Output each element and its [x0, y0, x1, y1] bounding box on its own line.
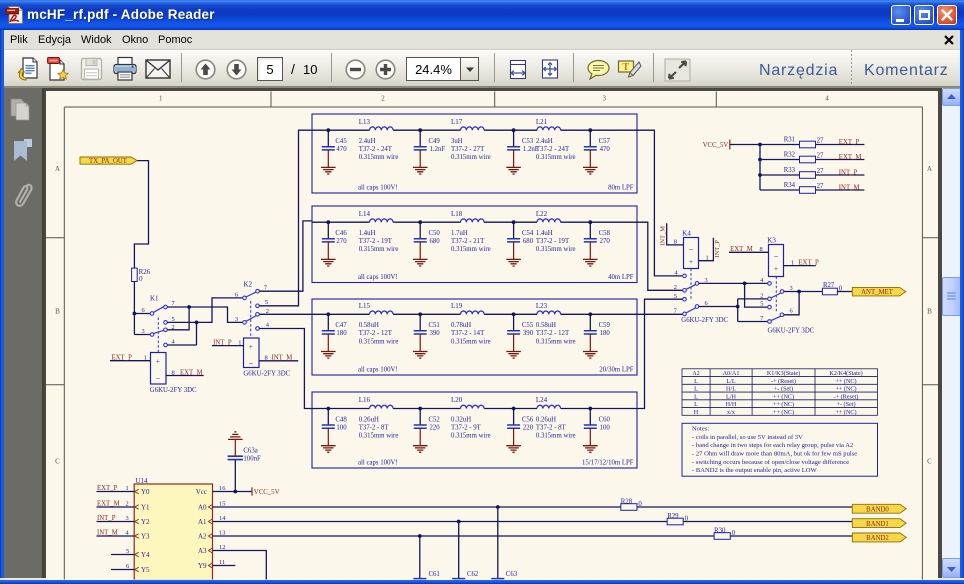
junction C56 node: [512, 407, 516, 411]
svg-text:L: L: [694, 378, 698, 385]
svg-text:T37-2 - 19T: T37-2 - 19T: [359, 238, 393, 245]
svg-text:T37-2 - 12T: T37-2 - 12T: [359, 330, 393, 337]
wire U14 pin 13 (A2) to BAND2: [213, 530, 853, 537]
svg-text:R27: R27: [823, 282, 835, 289]
svg-text:L: L: [694, 401, 698, 408]
svg-text:−: −: [249, 358, 254, 368]
wire U14 pin 12 (A3): [213, 544, 267, 579]
svg-text:INT_M: INT_M: [272, 355, 293, 362]
svg-text:L13: L13: [359, 118, 371, 126]
sheet zone labels: [55, 95, 932, 466]
wire TX_PA_OUT to R26: [134, 161, 148, 269]
wire LPF3 series line: [312, 313, 637, 315]
svg-text:R29: R29: [667, 513, 679, 520]
svg-text:++ (NC): ++ (NC): [773, 393, 794, 400]
dotted separator: [851, 50, 852, 84]
inductor L17: [451, 118, 491, 161]
resistor R33: [784, 167, 824, 178]
resistor R30: [714, 528, 736, 540]
svg-text:BAND1: BAND1: [866, 521, 889, 528]
svg-text:EXT_M: EXT_M: [97, 501, 120, 508]
svg-text:4: 4: [266, 321, 270, 328]
resistor R29: [667, 513, 688, 525]
toolbar icon: email: [145, 59, 171, 79]
svg-text:A2: A2: [692, 370, 700, 377]
svg-text:C60: C60: [599, 416, 611, 423]
junction C45 node: [326, 128, 330, 132]
svg-text:T37-2 - 8T: T37-2 - 8T: [359, 424, 390, 431]
junction C62 tap: [457, 520, 461, 524]
svg-text:0.315mm wire: 0.315mm wire: [451, 433, 491, 440]
separator: [181, 53, 182, 82]
svg-text:B: B: [55, 308, 60, 316]
svg-text:G6KU-2FY 3DC: G6KU-2FY 3DC: [243, 370, 290, 377]
wire U14 pin 16 to VCC_5V: [213, 485, 253, 492]
right scrollbar: [942, 88, 961, 578]
svg-text:100nF: 100nF: [467, 580, 485, 584]
relay state table: [682, 369, 878, 416]
svg-text:- 27 Ohm will draw more than 8: - 27 Ohm will draw more than 80mA, but o…: [692, 451, 857, 458]
svg-text:8: 8: [172, 369, 175, 376]
separator: [331, 53, 332, 82]
relay K4 contacts: [674, 269, 729, 325]
svg-text:0.315mm wire: 0.315mm wire: [359, 433, 399, 440]
svg-text:G6KU-2FY 3DC: G6KU-2FY 3DC: [768, 327, 815, 334]
svg-text:15: 15: [219, 501, 225, 508]
svg-text:1: 1: [238, 339, 241, 346]
junction C57 node: [588, 128, 592, 132]
svg-text:1: 1: [706, 254, 709, 261]
svg-text:EXT_P: EXT_P: [97, 485, 118, 492]
svg-text:ANT_MET: ANT_MET: [861, 289, 894, 296]
junction C59 node: [588, 312, 592, 316]
svg-text:1.2nF: 1.2nF: [430, 146, 446, 153]
capacitor C48: [321, 409, 347, 453]
svg-text:Y5: Y5: [141, 566, 150, 574]
junction K3.3 branch: [797, 290, 801, 294]
svg-text:Y0: Y0: [141, 488, 150, 496]
svg-text:5: 5: [760, 301, 763, 308]
resistor R32: [784, 152, 824, 163]
svg-text:0.26uH: 0.26uH: [359, 416, 379, 423]
junction C51 node: [418, 312, 422, 316]
svg-text:27: 27: [817, 137, 824, 144]
wire K1.7/K1.2 to K2.3: [167, 307, 243, 330]
junction K4.6 branch: [736, 305, 740, 309]
svg-text:C46: C46: [335, 230, 347, 237]
svg-text:C63a: C63a: [243, 447, 257, 454]
capacitor C60: [583, 409, 611, 453]
svg-text:40m LPF: 40m LPF: [608, 274, 634, 281]
svg-text:1: 1: [126, 485, 129, 492]
svg-text:8: 8: [760, 246, 763, 253]
svg-text:INT_M: INT_M: [659, 226, 666, 246]
wire K4.6 to K3.2/K3.7: [699, 299, 768, 322]
svg-text:6: 6: [142, 307, 145, 314]
svg-text:C57: C57: [599, 138, 611, 145]
svg-text:C49: C49: [429, 138, 441, 145]
svg-text:TX_PA_OUT: TX_PA_OUT: [89, 158, 128, 165]
wire LPF1 series line: [312, 129, 637, 131]
svg-text:C54: C54: [522, 230, 534, 237]
svg-text:C: C: [927, 458, 932, 466]
svg-text:H/L: H/L: [726, 386, 736, 393]
svg-text:0.315mm wire: 0.315mm wire: [451, 154, 491, 161]
capacitor C56: [506, 409, 534, 453]
svg-text:C56: C56: [522, 416, 534, 423]
svg-text:100nF: 100nF: [243, 455, 261, 462]
capacitor C63a: [228, 440, 261, 492]
svg-text:R34: R34: [784, 182, 796, 189]
wire U14 pin 4: [97, 535, 135, 537]
svg-text:INT_P: INT_P: [213, 339, 232, 346]
svg-text:5: 5: [126, 548, 129, 555]
svg-text:20/30m LPF: 20/30m LPF: [599, 366, 633, 373]
svg-text:0.58uH: 0.58uH: [536, 322, 556, 329]
svg-text:VCC_5V: VCC_5V: [703, 142, 729, 149]
relay K1 coil: [110, 353, 204, 394]
wire LPF4 series line: [312, 408, 637, 410]
svg-text:3: 3: [126, 515, 129, 522]
inductor L14: [359, 210, 399, 253]
svg-text:L/H: L/H: [726, 393, 736, 400]
svg-text:A: A: [927, 165, 932, 173]
svg-text:390: 390: [430, 330, 441, 337]
junction R26/K1.6: [133, 312, 137, 316]
svg-text:270: 270: [336, 238, 347, 245]
junction C53 node: [512, 128, 516, 132]
svg-text:EXT_M: EXT_M: [839, 154, 862, 161]
svg-text:T37-2 - 21T: T37-2 - 21T: [451, 238, 485, 245]
port BAND2: [852, 533, 906, 542]
svg-text:16: 16: [219, 485, 225, 492]
sheet zone separators: [46, 92, 938, 385]
svg-text:27: 27: [817, 152, 824, 159]
svg-text:7: 7: [674, 308, 678, 315]
svg-text:T37-2 - 12T: T37-2 - 12T: [536, 330, 570, 337]
svg-text:2.4uH: 2.4uH: [536, 138, 553, 145]
svg-text:G6KU-2FY 3DC: G6KU-2FY 3DC: [150, 387, 197, 394]
wire U14 pin 3: [97, 521, 135, 523]
svg-text:INT_M: INT_M: [97, 530, 118, 537]
relay K2 coil: [212, 338, 298, 377]
svg-text:3: 3: [142, 328, 145, 335]
svg-text:6: 6: [126, 563, 129, 570]
svg-text:A1: A1: [198, 518, 207, 526]
svg-text:T37-2 - 8T: T37-2 - 8T: [536, 424, 567, 431]
inductor L21: [536, 118, 576, 161]
inductor L16: [359, 396, 399, 439]
svg-text:0: 0: [732, 530, 736, 537]
svg-text:BAND0: BAND0: [866, 507, 889, 514]
junction VCC column nodes: [758, 143, 762, 177]
svg-text:L19: L19: [451, 302, 463, 310]
svg-text:INT_P: INT_P: [714, 240, 721, 258]
wire R26 to K1 commons: [134, 282, 150, 335]
svg-text:T37-2 - 9T: T37-2 - 9T: [451, 424, 482, 431]
inductor L20: [451, 396, 491, 439]
svg-text:K2: K2: [244, 281, 253, 289]
svg-text:A0/A1: A0/A1: [723, 370, 740, 377]
svg-text:K1: K1: [150, 295, 159, 303]
svg-text:C51: C51: [429, 322, 440, 329]
svg-text:680: 680: [523, 238, 534, 245]
LPF box 15/17/12/10m LPF: [312, 392, 637, 468]
capacitor C46: [321, 222, 347, 266]
junction C60 node: [588, 407, 592, 411]
svg-text:1.2nF: 1.2nF: [523, 146, 539, 153]
svg-text:470: 470: [336, 146, 347, 153]
svg-text:100: 100: [600, 424, 611, 431]
ground (above C63a): [228, 432, 243, 440]
svg-text:all caps 100V!: all caps 100V!: [358, 459, 398, 466]
svg-text:K4: K4: [682, 229, 691, 237]
svg-text:1.7uH: 1.7uH: [451, 230, 468, 237]
svg-text:1: 1: [791, 259, 794, 266]
toolbar icon: zoom in: [375, 59, 396, 80]
svg-text:R33: R33: [784, 167, 796, 174]
toolbar icon: save (floppy, disabled): [80, 57, 103, 81]
separator: [573, 53, 574, 82]
power VCC_5V (top): [703, 140, 730, 150]
svg-text:Y1: Y1: [141, 504, 150, 512]
svg-text:1: 1: [159, 95, 163, 103]
relay K3 coil: [729, 237, 819, 277]
svg-text:Notes:: Notes:: [692, 426, 709, 433]
wire R34 row: [760, 189, 864, 191]
svg-text:390: 390: [523, 330, 534, 337]
capacitor C57: [583, 130, 611, 174]
svg-text:- band change in two steps for: - band change in two steps for each rela…: [692, 442, 853, 449]
svg-text:+: +: [249, 342, 253, 351]
svg-text:C61: C61: [429, 571, 440, 578]
svg-text:L24: L24: [536, 396, 548, 404]
junction C49 node: [418, 128, 422, 132]
svg-text:0.315mm wire: 0.315mm wire: [536, 433, 576, 440]
inductor L18: [451, 210, 491, 253]
svg-text:0.315mm wire: 0.315mm wire: [451, 246, 491, 253]
capacitor C54: [506, 222, 534, 266]
svg-text:12: 12: [219, 544, 225, 551]
capacitor C58: [583, 222, 611, 266]
junction C55 node: [512, 312, 516, 316]
svg-text:27: 27: [817, 168, 824, 175]
junction C52 node: [418, 407, 422, 411]
svg-text:C47: C47: [335, 322, 347, 329]
svg-text:0: 0: [139, 275, 143, 283]
svg-text:A3: A3: [198, 547, 207, 555]
svg-text:180: 180: [336, 330, 347, 337]
wire U14 pin 5: [111, 548, 134, 555]
Komentarz button: [864, 62, 949, 80]
svg-text:0.315mm wire: 0.315mm wire: [359, 246, 399, 253]
separator: [494, 53, 495, 82]
capacitor C47: [321, 314, 347, 358]
junction K4.3 branch: [743, 282, 747, 286]
svg-text:8: 8: [674, 239, 677, 246]
svg-text:++ (NC): ++ (NC): [835, 386, 856, 393]
svg-text:270: 270: [600, 238, 611, 245]
net label EXT_M (U14.2): [97, 501, 129, 508]
svg-text:Y2: Y2: [141, 518, 150, 526]
svg-text:100nF: 100nF: [429, 580, 447, 584]
toolbar icon: save copy (doc with yellow arrow): [16, 56, 40, 82]
capacitor C52: [413, 409, 441, 453]
svg-text:0.26uH: 0.26uH: [536, 416, 556, 423]
wire K2.4 to 15m LPF input: [259, 329, 312, 409]
svg-text:C55: C55: [522, 322, 534, 329]
svg-text:+: +: [689, 257, 693, 266]
wire U14 pin 6: [111, 563, 134, 570]
svg-text:K2/K4(State): K2/K4(State): [829, 370, 862, 377]
capacitor C53: [506, 130, 538, 174]
svg-text:0.32uH: 0.32uH: [451, 416, 471, 423]
svg-text:K1/K3(State): K1/K3(State): [767, 370, 800, 377]
svg-text:C50: C50: [429, 230, 441, 237]
inductor L23: [536, 302, 576, 345]
svg-text:+: +: [774, 264, 778, 273]
svg-text:0.315mm wire: 0.315mm wire: [536, 338, 576, 345]
svg-text:470: 470: [600, 146, 611, 153]
page number box: [257, 57, 283, 81]
menu bar: [0, 30, 964, 50]
svg-text:G6KU-2FY 3DC: G6KU-2FY 3DC: [681, 317, 728, 324]
svg-text:0.78uH: 0.78uH: [451, 322, 471, 329]
resistor R34: [784, 182, 824, 193]
toolbar icon: text highlight: [617, 59, 642, 81]
junction C61 tap: [418, 534, 422, 538]
wire 20/30m LPF output to K4.7: [637, 313, 683, 315]
capacitor C55: [506, 314, 534, 358]
svg-text:x/x: x/x: [727, 409, 736, 416]
svg-text:EXT_M: EXT_M: [180, 369, 203, 376]
svg-text:C63: C63: [506, 571, 518, 578]
window borders: [0, 30, 4, 578]
svg-text:- coils in parallel, so use 5V: - coils in parallel, so use 5V instead o…: [692, 434, 803, 441]
svg-text:13: 13: [219, 530, 225, 537]
svg-text:Y4: Y4: [141, 551, 150, 559]
svg-text:all caps 100V!: all caps 100V!: [358, 184, 398, 191]
svg-text:R32: R32: [784, 152, 796, 159]
svg-text:R30: R30: [714, 528, 726, 535]
toolbar icon: create pdf (doc with red band and star): [46, 56, 71, 82]
svg-text:0.315mm wire: 0.315mm wire: [359, 338, 399, 345]
svg-text:1.4uH: 1.4uH: [536, 230, 553, 237]
svg-text:5: 5: [674, 293, 677, 300]
svg-text:Vcc: Vcc: [196, 488, 207, 496]
svg-text:L17: L17: [451, 118, 463, 126]
svg-text:R28: R28: [621, 499, 633, 506]
zoom level box: [406, 57, 461, 81]
resistor R26: [132, 268, 151, 283]
capacitor C63: [491, 507, 523, 584]
svg-text:-+ (Reset): -+ (Reset): [771, 378, 796, 385]
relay K1 contacts: [142, 295, 176, 353]
capacitor C49: [413, 130, 445, 174]
svg-text:680: 680: [430, 238, 441, 245]
relay K3 contacts: [760, 277, 815, 335]
port BAND0: [852, 504, 906, 513]
junction C54 node: [512, 220, 516, 224]
wire K1.5/K1.4 to K2.6: [167, 298, 243, 345]
wire 40m LPF output to K4.2: [637, 222, 683, 290]
svg-text:0.58uH: 0.58uH: [359, 322, 379, 329]
svg-text:Y9: Y9: [198, 562, 207, 570]
svg-text:++ (NC): ++ (NC): [773, 401, 794, 408]
sidebar icon: bookmark: [12, 138, 34, 163]
svg-text:L21: L21: [536, 118, 548, 126]
svg-text:A2: A2: [198, 533, 207, 541]
sidebar icon: paperclip: [9, 178, 35, 210]
svg-text:C48: C48: [335, 416, 347, 423]
svg-text:C53: C53: [522, 138, 534, 145]
svg-text:2.4uH: 2.4uH: [359, 138, 376, 145]
svg-text:C52: C52: [429, 416, 441, 423]
wire U14 pin 11 (Y9): [213, 559, 236, 566]
svg-text:2: 2: [381, 95, 385, 103]
wire K2.5 to 80m LPF input: [259, 130, 312, 306]
svg-text:3uH: 3uH: [451, 138, 463, 145]
svg-text:T37-2 - 19T: T37-2 - 19T: [536, 238, 570, 245]
junction C63a tap: [233, 490, 237, 494]
toolbar icon: comment bubble: [586, 59, 610, 81]
svg-text:all caps 100V!: all caps 100V!: [358, 366, 398, 373]
power VCC_5V (U14): [252, 487, 280, 496]
svg-text:K3: K3: [767, 237, 776, 245]
svg-text:27: 27: [817, 183, 824, 190]
svg-text:++ (NC): ++ (NC): [835, 378, 856, 385]
svg-text:15/17/12/10m LPF: 15/17/12/10m LPF: [582, 459, 634, 466]
wire K4.3 to K3.4/K3.5: [699, 283, 768, 307]
svg-text:INT_P: INT_P: [839, 169, 858, 176]
svg-text:EXT_P: EXT_P: [112, 355, 133, 362]
toolbar icon: fit page: [540, 58, 560, 80]
svg-text:180: 180: [600, 330, 611, 337]
svg-text:3: 3: [603, 95, 607, 103]
svg-text:L23: L23: [536, 302, 548, 310]
wire U14 pin 1: [97, 491, 135, 493]
inductor L19: [451, 302, 491, 345]
svg-text:220: 220: [430, 424, 441, 431]
wire R31 row: [760, 144, 864, 146]
svg-text:L: L: [694, 386, 698, 393]
separator: [653, 53, 654, 82]
sheet inner border frame: [64, 107, 922, 580]
wire K2.2 to 20/30m LPF input: [259, 313, 312, 315]
wire U14 pin 2: [97, 506, 135, 508]
document page: [46, 91, 938, 580]
toolbar: [0, 50, 964, 87]
sidebar icon: pages: [9, 96, 35, 122]
svg-text:1.4uH: 1.4uH: [359, 230, 376, 237]
svg-text:C62: C62: [467, 571, 479, 578]
svg-text:H/H: H/H: [726, 401, 737, 408]
junction C47 node: [326, 312, 330, 316]
svg-text:0: 0: [685, 516, 689, 523]
wire R33 row: [760, 174, 864, 176]
svg-text:C45: C45: [335, 138, 347, 145]
svg-text:L14: L14: [359, 210, 371, 218]
capacitor C59: [583, 314, 611, 358]
junction K1.7: [187, 305, 191, 309]
svg-text:0.315mm wire: 0.315mm wire: [536, 246, 576, 253]
Narzedzia button: [759, 62, 838, 80]
svg-text:6: 6: [790, 308, 793, 315]
svg-text:0.315mm wire: 0.315mm wire: [536, 154, 576, 161]
inductor L15: [359, 302, 399, 345]
svg-text:0: 0: [638, 501, 642, 508]
toolbar icon: fullscreen: [664, 58, 691, 82]
